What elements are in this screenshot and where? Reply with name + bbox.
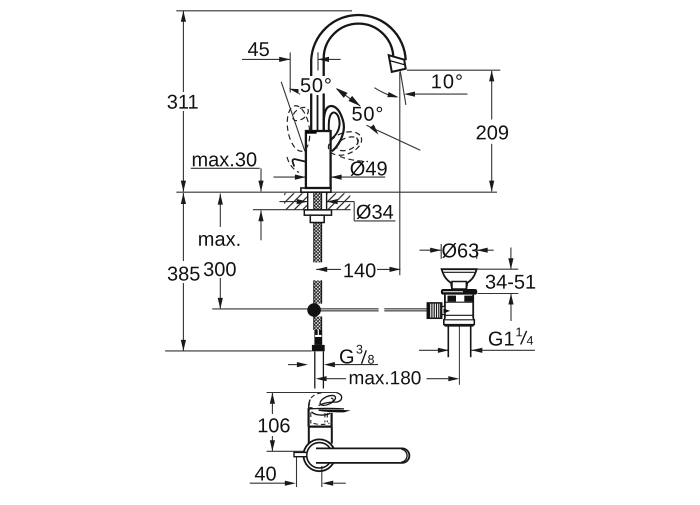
- svg-text:Ø63: Ø63: [441, 240, 479, 262]
- svg-text:max.: max.: [198, 229, 241, 251]
- svg-text:8: 8: [367, 353, 374, 367]
- svg-text:40: 40: [254, 464, 276, 486]
- svg-text:4: 4: [526, 334, 533, 348]
- svg-text:50°: 50°: [351, 104, 384, 126]
- svg-text:3: 3: [356, 343, 363, 357]
- svg-text:45: 45: [247, 39, 269, 61]
- svg-text:1: 1: [515, 325, 522, 339]
- svg-text:G1: G1: [488, 329, 515, 351]
- svg-text:max.30: max.30: [191, 149, 257, 171]
- svg-text:34-51: 34-51: [485, 272, 536, 294]
- svg-text:300: 300: [203, 259, 236, 281]
- svg-text:Ø34: Ø34: [356, 202, 394, 224]
- svg-text:209: 209: [476, 122, 509, 144]
- svg-text:max.180: max.180: [348, 368, 421, 389]
- svg-text:311: 311: [167, 92, 199, 114]
- svg-text:G: G: [339, 346, 355, 368]
- svg-text:Ø49: Ø49: [350, 158, 388, 180]
- svg-text:140: 140: [343, 260, 376, 282]
- svg-text:10°: 10°: [431, 71, 464, 93]
- svg-text:50°: 50°: [300, 75, 333, 97]
- svg-text:385: 385: [167, 264, 200, 286]
- svg-text:106: 106: [257, 415, 290, 437]
